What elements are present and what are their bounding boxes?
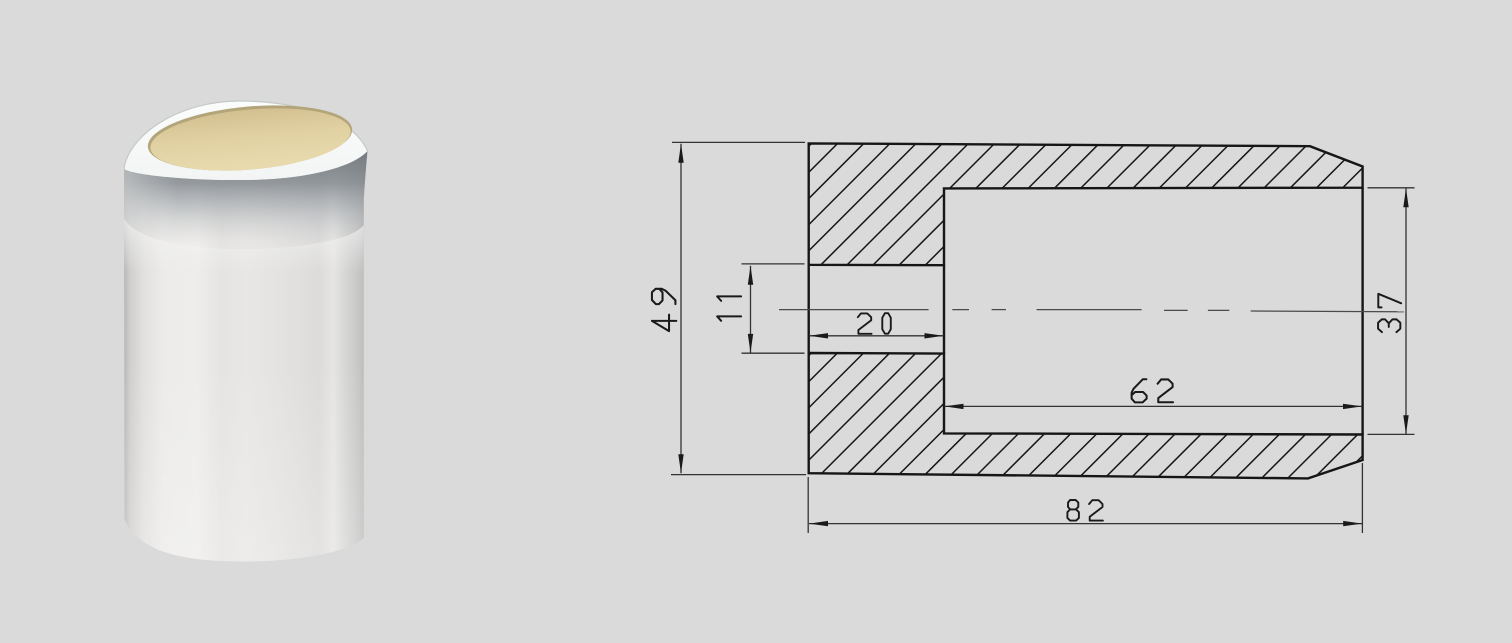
dimension 37: lower arrowhead [1403, 415, 1408, 434]
dimension 49: dimension line [680, 144, 682, 474]
centerline: long dash 2 [1037, 309, 1142, 311]
dimension 11: bottom extension line [742, 352, 805, 354]
cone band left lightening [124, 151, 368, 249]
dimension 11: value label "11" [717, 296, 741, 320]
dimension 62: left arrowhead [945, 404, 964, 409]
centerline: short dash 4 [1208, 309, 1229, 311]
dimension 49: lower arrowhead [678, 454, 683, 473]
flared-mouth cone band [124, 151, 368, 249]
dimension 20: right arrowhead [925, 333, 944, 338]
dimension 11: dimension line [750, 266, 752, 353]
dimension 49: top extension line [672, 141, 805, 143]
dimension 82: right extension line [1361, 463, 1363, 533]
dimension 11: lower arrowhead [748, 334, 753, 353]
dimension 37: value label "37" [1378, 294, 1401, 332]
dimension 49: bottom extension line [671, 474, 806, 476]
dimension 82: right arrowhead [1343, 521, 1362, 526]
cylinder base light overlay [124, 360, 368, 562]
dimension 37: dimension line [1405, 188, 1407, 434]
dimension 11: top extension line [742, 263, 805, 265]
cylinder body [124, 101, 368, 562]
rim outer edge line [124, 101, 368, 169]
hatched upper section [809, 143, 1363, 265]
cone-to-body bright fade [124, 219, 364, 290]
centerline: long dash 3 [1251, 310, 1404, 313]
dimension 37: bottom extension line [1368, 433, 1415, 435]
dimension 37: upper arrowhead [1403, 188, 1408, 207]
dimension 49: upper arrowhead [678, 144, 683, 163]
bore inner shadow ring [145, 98, 355, 179]
dimension 82: value label "82" [1067, 500, 1103, 521]
dimension 20: left arrowhead [809, 333, 828, 338]
dimension 20: value label "20" [858, 313, 891, 334]
centerline: long dash 1 [779, 309, 929, 311]
right face edge across bore [1361, 188, 1363, 435]
centerline: short dash 2 [992, 309, 1006, 311]
dimension 82: left extension line [807, 477, 809, 533]
left face edge across bore [808, 265, 810, 353]
dimension 62: value label "62" [1132, 379, 1173, 402]
dimension 11: upper arrowhead [748, 266, 753, 285]
centerline: short dash 1 [952, 309, 969, 311]
hatched lower section [809, 353, 1363, 478]
dimension 82: left arrowhead [809, 521, 828, 526]
counterbore shoulder edge across bore [943, 265, 945, 353]
dimension 62: dimension line [945, 405, 1363, 407]
rim top surface [124, 101, 368, 180]
dimension 20: dimension line [809, 335, 944, 337]
dimension 82: dimension line [809, 523, 1362, 525]
dimension 62: right arrowhead [1343, 404, 1362, 409]
dimension 49: value label "49" [652, 289, 676, 331]
dimension 37: top extension line [1368, 187, 1415, 189]
bore cream interior [148, 101, 353, 178]
centerline: short dash 3 [1164, 309, 1188, 311]
